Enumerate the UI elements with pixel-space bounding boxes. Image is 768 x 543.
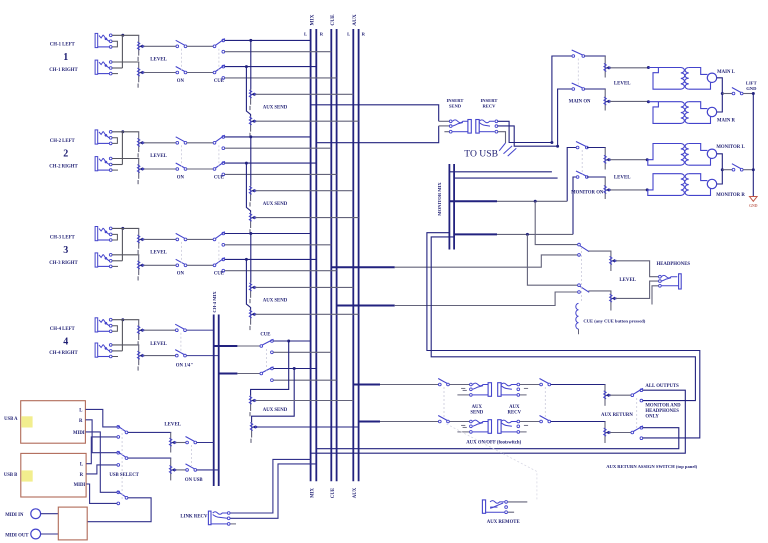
gang link CH-4 ON [180,333,182,353]
wire USB B MIDI out [86,484,117,503]
jack CH-3 RIGHT input [95,253,118,268]
node MAIN shield junction [721,92,724,95]
switch HEADPHONE source (R) [578,284,590,294]
svg-text:CH-1 LEFT: CH-1 LEFT [50,43,76,48]
wire CH-4 L to CUE L bus [273,351,331,353]
wire CH-2 L to CUE L bus [225,147,332,149]
wire CH-2 aux send L to AUX L bus [255,190,353,192]
wire MIDI IN to interface [41,513,59,515]
label LEVEL usb [164,423,181,428]
label AUX SEND CH-2 [263,202,288,207]
svg-text:AUX SEND: AUX SEND [263,299,288,304]
wire CH-1 aux feed R [246,67,250,117]
transformer MAIN R output [647,100,717,123]
wire CH-3 aux send L to AUX L bus [255,286,353,288]
wire hp level L to jack [616,261,659,277]
wire CH-1 R to CUE R bus [225,77,337,79]
label MAIN R [717,119,736,124]
node MONITOR shield junction [721,168,724,171]
svg-text:ALL OUTPUTS: ALL OUTPUTS [645,384,679,389]
switch CH-2 CUE (R) [213,161,225,175]
wire CH-3 R to MIX R bus [225,258,317,260]
wire CH-2 right ring stub [112,164,122,166]
linkage headphone cue relay [580,247,582,302]
bus CUE L vertical [330,29,332,481]
pot CH-3 LEVEL L [137,228,144,254]
svg-text:USB B: USB B [4,473,17,478]
wire CH-3 L to CUE L bus [225,244,332,246]
label CUE relay note [583,319,645,324]
wire USB A R out [86,420,117,453]
bus label CUE bottom [331,488,336,498]
label HEADPHONES only [645,409,679,414]
svg-text:MAIN R: MAIN R [717,119,736,124]
svg-text:CUE: CUE [331,488,336,498]
jack AUX RECV (R) [498,420,528,434]
wire lift switch to GND rail (monitor) [743,169,753,171]
pot USB LEVEL R [169,458,176,480]
svg-text:TO USB: TO USB [464,149,498,160]
wire MONITOR shield to lift switch [722,169,732,171]
pot CH-1 LEVEL L [137,35,144,61]
svg-text:R: R [80,473,84,478]
node monitor R headphone tap [526,233,529,236]
svg-text:RECV: RECV [482,103,496,108]
svg-text:CUE: CUE [214,272,224,277]
svg-text:AUX: AUX [472,405,483,410]
svg-text:ON 1/4": ON 1/4" [176,364,194,369]
label HEADPHONES [657,262,691,267]
switch CH-3 CUE (R) [213,258,225,272]
pot CH-3 LEVEL R [137,255,144,281]
svg-text:AUX SEND: AUX SEND [263,202,288,207]
wire headphone switch L out [588,250,611,253]
ground symbol GND [750,197,758,202]
svg-text:ON: ON [177,175,185,180]
wire CH-2 normalling vertical [121,132,123,165]
wire MONITOR level R to transformer [610,189,647,191]
svg-text:LEVEL: LEVEL [150,58,167,63]
switch ON USB (R) [186,464,197,471]
label USB B [4,473,17,478]
channel number 2 [63,148,68,159]
svg-text:AUX: AUX [352,14,358,26]
svg-text:CUE (any CUE button pressed): CUE (any CUE button pressed) [583,319,645,324]
wire CH-1 aux feed L [250,40,252,89]
wire USB B L out [86,437,117,464]
label ON CH-3 [177,272,185,277]
svg-text:L: L [79,408,82,413]
wire link recv tip to MIX L [230,459,310,513]
wire aux return monitor-only R [427,233,700,438]
coil CUE detect relay [576,303,579,334]
wire CH-4 MIX L tee to CUE switch [237,345,260,347]
wire CH-3 aux send R to AUX R bus [255,313,359,315]
bus letter L (MIX) [304,31,307,36]
wire MAIN level R to transformer [610,100,649,102]
wire MONITOR L XLR out [717,154,723,170]
wire CH-1 L to MIX L bus [225,39,311,41]
bus AUX R vertical [358,29,360,481]
channel number 1 [63,52,68,63]
wire aux return monitor-only L [431,237,695,401]
svg-text:AUX: AUX [353,487,358,498]
wire MAIN level L to transformer [610,67,649,69]
svg-text:LEVEL: LEVEL [614,175,631,180]
pin label R (USB B) [80,473,84,478]
pot MAIN LEVEL R [604,89,611,111]
label LEVEL monitor [614,175,631,180]
wire lift switch to GND rail (main) [743,93,753,95]
svg-text:LEVEL: LEVEL [614,82,631,87]
wire CUE L bus tee [331,266,394,268]
wire CH-2 ON to CUE (L) [187,142,213,144]
label LINK RECV [180,514,208,519]
bus label AUX top [352,14,358,26]
wire monitor bus L tee [449,200,497,202]
pot CH-4 AUX SEND L [249,396,256,417]
wire insert send ring stub [439,125,450,127]
wire aux remote tip [508,501,528,503]
gang link ON USB [190,445,192,468]
svg-text:MONITOR MIX: MONITOR MIX [437,182,442,216]
svg-text:MONITOR ON: MONITOR ON [571,190,604,195]
label TO USB [464,149,498,160]
svg-text:SEND: SEND [470,411,483,416]
gang link CH-2 CUE [218,145,220,166]
wire CH-4 normalling vertical [121,320,123,351]
pot CH-2 AUX SEND R [249,213,256,234]
wire AUX on/off to send jack (R) [449,421,469,423]
wire post-insert R up to MAIN ON [558,89,572,146]
svg-text:LINK RECV: LINK RECV [180,514,208,519]
pot CH-3 AUX SEND L [249,283,256,304]
transformer MONITOR L output [646,144,717,166]
wire CH-4 aux send L to AUX L bus [255,400,353,402]
svg-text:GND: GND [746,86,757,91]
wire CH-3 normalling vertical [121,228,123,260]
pin label MIDI (USB B) [74,483,86,488]
svg-text:MONITOR L: MONITOR L [716,145,744,150]
wire CH-2 aux feed R [246,163,250,213]
wire USB A MIDI out [86,432,117,492]
wire CH-1 aux send L to AUX L bus [255,93,353,95]
bus MIX R vertical [315,29,317,481]
switch USB SELECT (MIDI) [117,491,128,505]
pot MONITOR LEVEL R [604,177,611,199]
node CH-2 aux tap R [245,162,248,165]
jack INSERT SEND [449,120,471,134]
wire monitor R to headphone switch [527,234,577,285]
wire insert recv tip out [498,121,552,142]
pot CH-2 LEVEL R [137,159,144,185]
switch AUX ON/OFF (R) [438,416,449,423]
label LEVEL CH-4 [150,342,167,347]
switch MONITOR ON (L) [576,142,588,149]
gang link AUX RETURN assign [636,398,638,430]
block MIDI interface [58,507,87,540]
switch MAIN ON (R) [572,83,585,90]
gang link CH-4 CUE [265,349,267,371]
wire CH-1 R to MIX R bus [225,66,317,68]
label MAIN L [717,70,735,75]
wire CH-1 L pot to ON switch [143,45,176,47]
wire MONITOR level L to transformer [610,159,647,161]
wire CH-4 R pot to ON switch [143,355,175,357]
wire CUE L to headphone switch [395,255,578,267]
bus AUX L vertical [352,29,354,481]
pot HEADPHONES LEVEL L [610,251,617,271]
wire USB A L out [86,409,117,427]
wire CH-3 aux feed R [246,259,250,309]
pot HEADPHONES LEVEL R [610,291,617,311]
wire CH-4 ON R to CH-4 MIX R [186,355,218,357]
pot CH-4 LEVEL R [137,345,144,371]
node monitor L headphone tap [534,200,537,203]
wire monitor feed R up to MONITOR ON [573,177,577,234]
wire AUX R bus tee [359,421,380,423]
wire AUX L bus tee [353,384,380,386]
node GND rail top [752,92,755,95]
label AUX SEND jack line1 [472,405,483,410]
wire ON USB L to CH-4 MIX L [197,442,214,444]
svg-text:MONITOR AND: MONITOR AND [645,403,681,408]
switch USB SELECT (L) [117,425,128,438]
wire CH-1 ON to CUE (L) [187,45,213,47]
label AUX ON/OFF [466,440,521,445]
gang link post AUX RECV [544,387,546,419]
svg-text:R: R [79,419,83,424]
jack CH-4 LEFT input [95,318,117,333]
bus letter R (AUX) [362,31,366,36]
wire AUX on/off to send jack (L) [449,384,469,386]
node CH-1 aux tap L [249,39,252,42]
label AUX SEND CH-1 [263,106,288,111]
label INSERT SEND line1 [447,98,464,103]
label LEVEL main [614,82,631,87]
node CH-3 aux tap L [249,232,252,235]
wire insert send tip stub [439,120,450,122]
node CH-4 aux tap L [287,340,290,343]
label MONITOR R [716,193,745,198]
wire AUX R tee to on/off switch [380,421,439,423]
svg-text:CUE: CUE [260,333,270,338]
label MONITOR L [716,145,744,150]
label USB SELECT [109,473,139,478]
node GND rail mid [752,168,755,171]
switch CH-1 CUE (R) [213,65,225,79]
wire headphone sleeve [652,286,659,305]
channel number 3 [63,245,68,256]
gang link CH-1 ON [180,49,182,70]
switch CH-2 ON (L) [176,137,187,144]
pot CH-1 AUX SEND R [249,116,256,137]
wire headphone switch R out [588,290,611,293]
label CUE CH-1 [214,79,224,84]
wire CH-2 aux send R to AUX R bus [255,217,359,219]
svg-text:SEND: SEND [449,103,462,108]
bus CUE R vertical [336,29,338,481]
wire monitor bus R tee [454,233,497,235]
wire ON USB R to CH-4 MIX R [197,469,219,471]
svg-text:MONITOR R: MONITOR R [716,193,745,198]
bus label MONITOR MIX [437,182,442,216]
wire monitor bus R tee to monitor on [497,233,573,235]
pot CH-2 LEVEL L [137,132,144,158]
pot CH-1 LEVEL R [137,62,144,88]
wire CH-2 L pot to ON switch [143,142,176,144]
svg-text:ON: ON [177,272,185,277]
node CH-2 aux tap L [249,135,252,138]
svg-text:MIDI: MIDI [74,483,86,488]
label AUX SEND CH-3 [263,299,288,304]
wire CH-2 L tip to level pot [112,131,139,134]
pot CH-2 AUX SEND L [249,186,256,207]
transformer MAIN L output [647,66,717,89]
gang link MAIN ON [577,59,579,87]
wire CH-4 R to CUE R bus [273,379,336,381]
wire monitor bus L feed [449,171,552,173]
wire aux return all-outputs R to MIX R [316,428,679,449]
wire MAIN ON L to level pot [585,55,606,58]
svg-text:CH-3 LEFT: CH-3 LEFT [50,236,76,241]
switch CH-2 ON (R) [176,163,187,170]
bus label MIX bottom [310,488,315,498]
node post-insert R [556,145,559,148]
label LEVEL CH-3 [150,251,167,256]
wire CH-4 L pot to ON switch [143,329,175,331]
label MIDI OUT [5,533,29,538]
wire monitor L to headphone switch [535,201,578,244]
connector MIDI IN [31,509,41,519]
wire CH-4 aux feed L [251,341,289,396]
pin label L (USB B) [80,463,83,468]
wire MAIN L XLR out [717,78,723,94]
jack AUX RECV (L) [498,383,528,397]
switch AUX ON/OFF (L) [438,379,449,386]
switch CH-4 ON 1/4 (R) [175,350,186,357]
switch MONITOR ON (R) [576,171,588,178]
jack CH-2 RIGHT input [95,157,118,172]
wire USB MIDI select out [87,498,151,522]
wire link recv ring to MIX R [230,464,316,518]
label AUX SEND CH-4 [263,408,288,413]
label ONLY [645,414,659,419]
block USB B interface [21,453,86,497]
switch HEADPHONE source (L) [578,243,590,256]
wire CUE R bus tee [337,305,395,307]
node CH-3 left tip junction [121,227,124,230]
wire CH-3 aux feed L [250,234,252,283]
pot MONITOR LEVEL L [604,148,611,170]
switch CH-3 CUE (L) [213,232,225,246]
gang link MONITOR ON [581,150,583,175]
wire monitor bus R feed [454,177,557,179]
wire MONITOR R XLR out [717,170,723,184]
svg-text:LEVEL: LEVEL [619,278,636,283]
switch CH-4 ON 1/4 (L) [175,324,186,331]
svg-text:USB A: USB A [4,417,18,422]
label CH-2 LEFT [50,139,76,144]
switch CH-1 ON (R) [176,67,187,74]
wire CH-1 R pot to ON switch [143,72,176,74]
wire aux return L pot to switch [609,394,631,396]
label ON USB [185,478,204,483]
svg-text:1: 1 [63,52,68,63]
pot MAIN LEVEL L [604,56,611,78]
svg-text:MIDI IN: MIDI IN [5,513,24,518]
svg-text:CH-4 LEFT: CH-4 LEFT [50,327,76,332]
jack AUX SEND (R) [457,420,491,434]
wire MIDI OUT to interface [41,533,59,535]
wire CH-4 aux feed R [252,369,295,423]
wire MAIN shield to lift switch [722,93,732,95]
wire CH-4 MIX R tee to CUE switch [237,373,260,375]
switch CH-1 CUE (L) [213,39,225,53]
wire CH-3 ON to CUE (R) [187,264,213,266]
jack INSERT RECV [476,120,498,134]
bus letter L (AUX) [347,31,350,36]
svg-text:ON: ON [177,79,185,84]
pot CH-3 AUX SEND R [249,310,256,331]
pot USB LEVEL L [169,432,176,452]
svg-text:RECV: RECV [508,411,522,416]
svg-text:LEVEL: LEVEL [150,251,167,256]
wire CH-3 ON to CUE (L) [187,238,213,240]
gang link CH-2 ON [180,145,182,166]
svg-text:ON USB: ON USB [185,478,204,483]
svg-text:LIFT: LIFT [746,81,757,86]
label LEVEL CH-1 [150,58,167,63]
switch CH-3 ON (R) [176,259,187,266]
gang link CH-1 CUE [218,49,220,70]
label AUX RECV jack line2 [508,411,522,416]
wire CH-4 ON L to CH-4 MIX L [186,329,213,331]
bus letter R (MIX) [320,31,324,36]
label MONITOR AND [645,403,681,408]
bus label AUX bottom [353,487,358,498]
wire AUX recv to assign switch (L) [520,384,540,386]
switch AUX RETURN assign (R) [631,426,643,440]
label CH-2 RIGHT [49,165,78,170]
wire MIX L to insert send [311,105,439,122]
svg-text:MIX: MIX [309,14,315,25]
label AUX RETURN ASSIGN SWITCH [606,464,697,469]
jack CH-1 RIGHT input [95,60,118,75]
switch post AUX RECV (L) [540,379,551,386]
svg-text:MIDI OUT: MIDI OUT [5,533,29,538]
wire AUX L tee to on/off switch [380,384,439,386]
wire hp level R to jack [616,281,659,298]
jack CH-1 LEFT input [95,33,117,48]
svg-text:AUX: AUX [509,405,520,410]
label ON CH-1 [177,79,185,84]
svg-text:MAIN ON: MAIN ON [569,99,591,104]
wire USB select R to level pot [128,457,171,460]
svg-text:L: L [347,31,350,36]
node CH-1 left tip junction [121,34,124,37]
switch CH-3 ON (L) [176,233,187,240]
wire CH-4 R tip to level pot [112,344,139,347]
switch post AUX RECV (R) [540,416,551,423]
label CH-1 LEFT [50,43,76,48]
label ON CH-2 [177,175,185,180]
block USB A interface [21,401,86,444]
svg-text:AUX RETURN: AUX RETURN [601,413,633,418]
svg-text:AUX ON/OFF (footswitch): AUX ON/OFF (footswitch) [466,440,521,445]
bus label CH-4 MIX [212,291,217,313]
wire CH-4 R to MIX R bus [273,368,316,370]
